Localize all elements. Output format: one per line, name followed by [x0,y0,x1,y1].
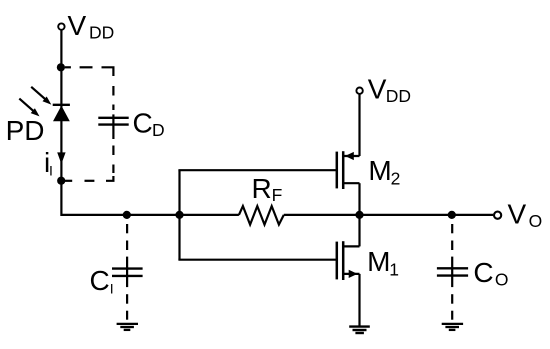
wire: gate branch vertical [178,170,180,260]
ground (below CI) [117,323,138,325]
svg-text:2: 2 [391,168,401,188]
svg-text:V: V [368,73,387,104]
light arrow 2 (lower) into PD [19,99,34,112]
transistor M2: channel bar [342,151,345,189]
power VDD terminal (top-left) [58,23,64,29]
svg-text:D: D [152,120,165,140]
wire: dashed box enclosing CD (top, right, bottom sides) [65,67,114,181]
svg-text:I: I [110,280,114,296]
resistor RF zigzag [239,206,284,225]
wire: M1 drain to output node [358,214,360,246]
wire: main horizontal rail (left of RF) [61,214,239,216]
ground (below CO) [442,323,463,325]
svg-text:1: 1 [389,260,399,280]
svg-text:V: V [68,10,87,41]
node: CI tap junction [123,211,131,219]
svg-text:F: F [272,185,283,205]
output terminal VO (open circle) [494,212,501,219]
transistor M2 (PMOS): gate bar [336,152,339,189]
svg-text:O: O [529,211,543,231]
svg-text:V: V [508,198,527,229]
svg-text:O: O [495,270,509,290]
svg-text:C: C [90,265,110,296]
wire: M1 source to ground [358,274,360,327]
svg-text:I: I [49,162,53,178]
transistor M1: source lead (bottom) [343,273,359,275]
node B: junction of PD cathode string and dashed CD box (bottom) [57,177,65,185]
svg-text:C: C [473,257,493,288]
wire: left vertical from VDD down to main rail [60,30,62,216]
transistor M2: source lead (top) [343,155,359,157]
svg-text:DD: DD [386,86,411,106]
svg-text:DD: DD [89,23,114,43]
transistor M1 (NMOS): gate bar [336,242,339,280]
svg-text:R: R [252,173,272,204]
current arrow iI (downward on wire) [57,152,65,164]
transistor M2: source arrow (points left) [345,152,354,160]
node: feedback/gate branch junction [175,211,183,219]
capacitor CO plates [437,267,468,269]
wire: main horizontal rail (right of RF) [284,214,493,216]
transistor M1: drain lead (top) [343,245,359,247]
node A: junction of PD anode string and dashed CD box (top) [57,63,65,71]
capacitor CI plates [112,267,143,269]
light arrow 1 (upper) into PD [31,87,46,100]
wire: top rail to M2 gate [178,169,336,171]
svg-text:M: M [367,246,390,277]
capacitor CD plates [98,117,128,119]
ground (below M1) [349,325,370,327]
node: output rail junction (main) [355,211,363,219]
photodiode PD: cathode bar [53,104,70,106]
photodiode PD: triangle (anode, pointing up) [53,106,70,122]
wire: bottom rail to M1 gate [178,259,336,261]
power VDD terminal (above M2) [356,88,362,94]
wire: M2 source to VDD [358,94,360,156]
svg-text:C: C [133,107,153,138]
transistor M1: source arrow (points right) [349,270,358,278]
node: CO tap junction [448,211,456,219]
svg-text:M: M [368,155,391,186]
transistor M2: drain lead (bottom) [343,182,359,184]
wire: dashed CO branch [451,224,453,320]
svg-text:PD: PD [6,115,45,146]
wire: dashed CI branch [126,224,128,320]
wire: M2 drain to output node [358,183,360,216]
transistor M1: channel bar [342,241,345,280]
